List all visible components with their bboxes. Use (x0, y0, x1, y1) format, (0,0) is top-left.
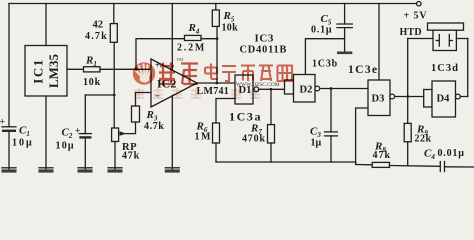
capacitor C3 (325, 89, 338, 163)
resistor R6 (213, 123, 220, 162)
svg-text:10μ: 10μ (56, 141, 75, 152)
wire bottom rail left (216, 161, 356, 163)
wire D3 output to D4 (395, 96, 424, 98)
node +5V terminal (417, 2, 421, 6)
ground (78, 168, 93, 173)
gate D2 IC3b (285, 39, 345, 102)
resistor R7 (268, 89, 275, 162)
svg-text:WWW.DZSC.COM: WWW.DZSC.COM (236, 82, 280, 88)
potentiometer RP (112, 122, 136, 169)
svg-text:1C3b: 1C3b (312, 59, 338, 70)
capacitor C4 (440, 162, 474, 172)
watermark (133, 57, 292, 98)
IC IC1 LM35 (25, 46, 67, 97)
svg-text:1C3a: 1C3a (229, 110, 262, 124)
ground (108, 168, 123, 173)
svg-text:10k: 10k (222, 23, 239, 34)
wire IC1 top pin (45, 4, 47, 46)
svg-text:4.7k: 4.7k (144, 121, 164, 132)
svg-text:42: 42 (93, 20, 104, 31)
watermark chars 电子市场网 (205, 64, 292, 82)
watermark char 维 (159, 63, 175, 85)
svg-text:1μ: 1μ (311, 138, 322, 149)
svg-text:1C3d: 1C3d (431, 63, 459, 74)
ground (39, 168, 54, 173)
svg-text:10k: 10k (83, 77, 101, 88)
gate D3 IC3e (368, 4, 395, 116)
svg-text:2.2M: 2.2M (177, 43, 206, 54)
IC1 rotated labels (31, 54, 62, 88)
svg-text:+ 5V: + 5V (404, 11, 428, 22)
piezo buzzer HTD (408, 23, 464, 97)
svg-text:D3: D3 (372, 94, 385, 105)
svg-text:47k: 47k (122, 151, 140, 162)
resistor R5 (212, 4, 219, 85)
svg-text:LM741: LM741 (197, 86, 230, 97)
resistor R1 (67, 67, 151, 72)
wire D3 lower input (356, 108, 368, 163)
svg-text:IC3: IC3 (255, 33, 275, 45)
ground (2, 168, 17, 173)
gate D1 IC3a (235, 75, 259, 104)
ground (165, 168, 180, 173)
watermark char 库 (181, 64, 198, 85)
svg-text:470k: 470k (242, 134, 266, 145)
ground (337, 52, 352, 55)
capacitor C5 (337, 4, 352, 52)
wire left frame (8, 4, 10, 127)
svg-text:+: + (75, 127, 80, 137)
wire D2 output to D3 (320, 88, 368, 90)
resistor R4 (135, 35, 217, 70)
svg-text:IC1: IC1 (31, 58, 46, 83)
svg-text:4.7k: 4.7k (85, 31, 108, 42)
wire D1 lower input (216, 99, 235, 124)
wire HTD right to D4 output (456, 39, 467, 97)
wire divider vertical R2 to RP (113, 42, 115, 128)
wire bottom rail right with resistor R8 (356, 162, 440, 167)
wire C2 tap (85, 94, 114, 96)
resistor R9 (404, 97, 411, 166)
wire +5V top rail (9, 3, 417, 5)
wire IC1 bottom pin (45, 96, 47, 169)
capacitor C1 (2, 127, 16, 169)
resistor R2 value 4.7k (110, 4, 117, 43)
gate D4 IC3d (424, 81, 461, 117)
watermark faint row (134, 88, 260, 98)
svg-text:10μ: 10μ (12, 138, 34, 149)
wire D1 output to D2 (259, 88, 285, 90)
svg-text:D4: D4 (437, 94, 451, 105)
watermark logo circle with hand (133, 62, 155, 84)
svg-text:CD4011B: CD4011B (240, 45, 288, 56)
resistor R3 (132, 93, 152, 123)
op-amp IC2 LM741 (151, 4, 197, 170)
svg-text:0.01μ: 0.01μ (438, 148, 465, 159)
svg-text:HTD: HTD (400, 27, 422, 38)
svg-text:TM: TM (177, 57, 184, 62)
svg-text:1C3e: 1C3e (348, 64, 379, 76)
wire op-amp output (197, 82, 235, 84)
capacitor C2 (79, 95, 91, 169)
svg-text:D2: D2 (300, 85, 313, 96)
svg-text:+: + (0, 118, 5, 128)
svg-text:LM35: LM35 (46, 54, 61, 88)
svg-text:+: + (155, 61, 160, 71)
